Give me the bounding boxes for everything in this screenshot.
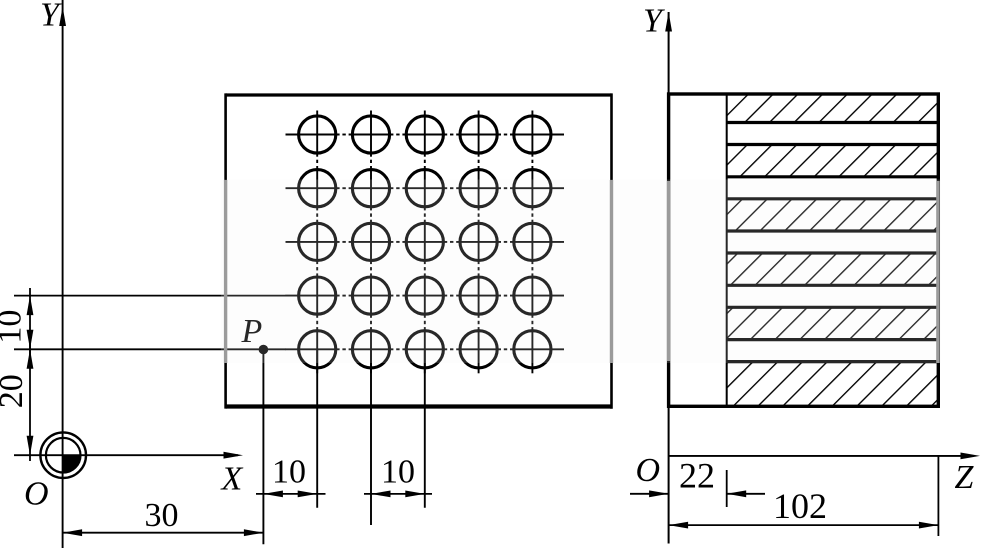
hole R5C2 — [352, 331, 389, 368]
svg-text:O: O — [24, 476, 49, 513]
section hatching (side view, material between holes) — [727, 94, 939, 406]
svg-text:10: 10 — [381, 454, 415, 491]
point P dot — [259, 345, 269, 355]
svg-text:Z: Z — [955, 459, 975, 496]
dimension 20 vertical (P to X axis) — [27, 342, 34, 461]
row 1 horizontal centerline — [286, 134, 565, 136]
column 3 vertical centerline — [424, 111, 426, 508]
svg-text:Y: Y — [40, 0, 62, 34]
hole R4C1 — [299, 277, 336, 314]
svg-text:20: 20 — [0, 374, 30, 408]
hole R3C3 — [406, 223, 443, 260]
row 3 horizontal centerline — [286, 241, 565, 243]
extension line below P — [262, 350, 264, 545]
origin symbol O (machine origin bullseye) — [40, 432, 86, 478]
X axis — [14, 452, 243, 459]
hole depth line (22 from left face) — [726, 94, 728, 406]
hole R1C4 — [460, 116, 497, 153]
dimension 10 horizontal (P to column 1) — [256, 491, 326, 498]
hole R5C3 — [406, 331, 443, 368]
hole R5C5 — [514, 331, 551, 368]
hole R2C2 — [352, 170, 389, 207]
hole R4C5 — [514, 277, 551, 314]
hole R3C5 — [514, 223, 551, 260]
hole section boundary lines (side view) — [727, 123, 939, 362]
hole R1C3 — [406, 116, 443, 153]
dimension 22 (outside arrows) — [630, 490, 765, 497]
dimension 102 horizontal — [669, 522, 939, 529]
hole R5C1 — [299, 331, 336, 368]
right extension line (side view right edge) — [937, 456, 939, 536]
hole R4C3 — [406, 277, 443, 314]
Y axis (front view) — [59, 0, 66, 548]
hole R3C4 — [460, 223, 497, 260]
workpiece outline (side view) — [669, 94, 939, 406]
dimension 30 horizontal (Y axis to P) — [63, 529, 264, 536]
svg-text:22: 22 — [679, 456, 715, 496]
svg-text:Y: Y — [643, 3, 665, 40]
hole R2C5 — [514, 170, 551, 207]
hole R1C2 — [352, 116, 389, 153]
gray border segments in seam band — [226, 180, 938, 363]
hole R1C5 — [514, 116, 551, 153]
hole R4C4 — [460, 277, 497, 314]
hole R4C2 — [352, 277, 389, 314]
dimension 10 horizontal (column 2 to column 3) — [364, 491, 432, 498]
svg-text:X: X — [220, 461, 244, 498]
hole R1C1 — [299, 116, 336, 153]
Z axis — [669, 453, 980, 460]
svg-text:30: 30 — [145, 497, 179, 534]
row 5 horizontal centerline — [14, 348, 564, 350]
hole R3C1 — [299, 223, 336, 260]
depth extent tick for dimension 22 — [726, 470, 728, 507]
svg-text:10: 10 — [272, 454, 306, 491]
column 2 vertical centerline — [370, 111, 372, 526]
hole R5C4 — [460, 331, 497, 368]
svg-text:102: 102 — [773, 486, 827, 526]
svg-text:10: 10 — [0, 310, 29, 344]
row 4 horizontal centerline — [14, 295, 564, 297]
scan seam band (faded middle strip artifact) — [221, 180, 941, 364]
hole R3C2 — [352, 223, 389, 260]
hole R2C1 — [299, 170, 336, 207]
dimension 10 vertical (row spacing) — [27, 288, 34, 356]
svg-text:O: O — [636, 452, 661, 489]
hole R2C4 — [460, 170, 497, 207]
column 1 vertical centerline — [316, 111, 318, 508]
column 5 vertical centerline — [531, 111, 533, 374]
row 2 horizontal centerline — [286, 187, 565, 189]
Y axis (side view) — [665, 12, 672, 544]
hole R2C3 — [406, 170, 443, 207]
column 4 vertical centerline — [478, 111, 480, 374]
workpiece outline (front view) — [226, 93, 612, 408]
